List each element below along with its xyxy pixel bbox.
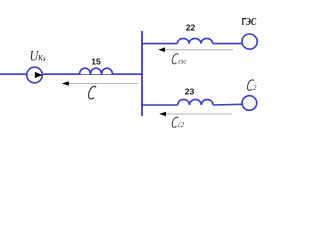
label C2 (247, 80, 253, 91)
wire: bottom branch to C2 (141, 104, 178, 106)
reactor 22 (coil in GES branch) (177, 38, 212, 43)
wire: top branch to GES (141, 43, 177, 45)
current arrow under reactor 15 (64, 83, 138, 85)
generator GES (circle) (242, 34, 257, 49)
label C_c2 (172, 117, 178, 127)
svg-text:15: 15 (91, 57, 101, 67)
label C (current in main feeder) (89, 86, 96, 99)
current arrow in C2 branch (161, 113, 232, 115)
system C2 (circle) (242, 96, 257, 111)
svg-text:Uкз: Uкз (30, 48, 46, 64)
svg-text:22: 22 (186, 22, 196, 32)
current arrow in GES branch (160, 49, 233, 51)
svg-text:2: 2 (253, 84, 257, 92)
source U (circle with arrow) (27, 67, 43, 83)
svg-text:ГЭС: ГЭС (242, 16, 257, 27)
reactor 15 (coil in main feeder) (80, 68, 113, 74)
svg-text:с2: с2 (178, 121, 185, 129)
label Uk3 (30, 48, 46, 64)
label C_ges (172, 54, 178, 64)
svg-text:гэс: гэс (178, 58, 188, 66)
label GES (242, 16, 257, 27)
svg-text:23: 23 (185, 87, 195, 97)
wire: main feeder from left edge to bus (0, 73, 142, 75)
node: bus bar (141, 31, 143, 116)
reactor 23 (coil in C2 branch) (178, 99, 213, 105)
